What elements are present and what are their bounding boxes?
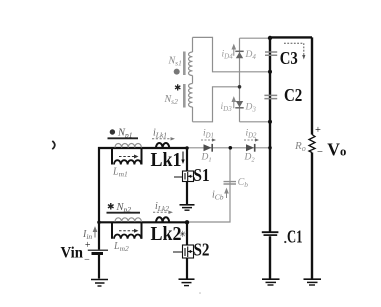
junction D3 anode node [238,85,242,89]
polarity dot Ns1 [174,69,180,75]
junction row1 to rail [268,146,272,150]
svg-text:C3: C3 [280,48,298,68]
transformer secondary wires [192,37,194,121]
diode D3 [236,101,243,107]
ground mid rail [262,278,280,280]
junction rail top node [268,36,272,40]
junction rail C2-C1 node [268,120,272,124]
svg-text:−: − [84,255,90,266]
ground right rail [304,278,322,280]
junction Cb top node [229,146,233,150]
junction S2 drain node [185,220,189,224]
transformer primary Np1 [115,144,141,148]
svg-text:S2: S2 [194,240,210,260]
svg-text:✳: ✳ [179,229,187,239]
ground S1 [180,204,195,206]
mosfet S1 [183,171,194,182]
svg-text:+: + [315,125,321,136]
wire row1 horizontal [98,147,187,149]
svg-text:✱: ✱ [107,202,115,212]
dashed current arrow C3 [284,43,304,56]
diode branch vertical [239,38,241,122]
svg-text:C1: C1 [287,226,303,246]
junction rail C3-C2 node [268,70,272,74]
wire input rail vertical [98,147,100,279]
mosfet S1 drain wire [186,148,188,171]
stray mark [199,292,201,294]
svg-text:Lk1: Lk1 [151,149,182,171]
inductor Lk1 coil [156,143,169,148]
secondary coil Ns1 [189,52,193,75]
capacitor C1 [262,231,279,233]
junction S1 drain node [185,146,189,150]
arrow magnetizing current phase1 [119,156,135,158]
output right rail [311,37,313,278]
arrow magnetizing current phase2 [119,230,135,232]
label Np1 [110,129,115,134]
output top wire [269,36,312,38]
capacitor Cb branch [187,148,230,222]
inductor Lk2 coil [156,217,169,222]
output mid rail [269,37,271,279]
label C1 [284,241,286,243]
transformer primary Np2 [115,218,141,222]
svg-text:Lk2: Lk2 [151,223,182,245]
resistor Ro [309,135,315,153]
svg-text:Vin: Vin [61,245,84,262]
input terminal stub [52,141,55,149]
mosfet S2 drain wire [186,222,188,245]
svg-text:−: − [317,147,323,158]
diode D1 [204,144,212,151]
mosfet S2 [183,245,194,258]
mosfet S1 source wire [186,182,188,205]
ground S2 [179,278,195,280]
capacitor C3 [265,52,277,55]
inductor Lm1 [112,148,142,165]
mosfet S2 source wire [186,258,188,279]
svg-text:S1: S1 [193,165,210,185]
junction input rail row2 [97,221,101,225]
transformer core bars [183,52,186,108]
diode D4 [235,50,243,52]
svg-text:✱: ✱ [174,83,181,93]
capacitor C2 [264,95,277,98]
wire row2 horizontal [98,221,187,223]
secondary coil Ns2 [189,84,193,107]
ground Vin [91,279,108,281]
inductor Lm2 [112,222,142,239]
diode D2 [246,144,254,151]
wire row1 gray segment to rail [187,147,269,149]
svg-text:+: + [85,240,91,251]
svg-text:C2: C2 [284,85,302,105]
